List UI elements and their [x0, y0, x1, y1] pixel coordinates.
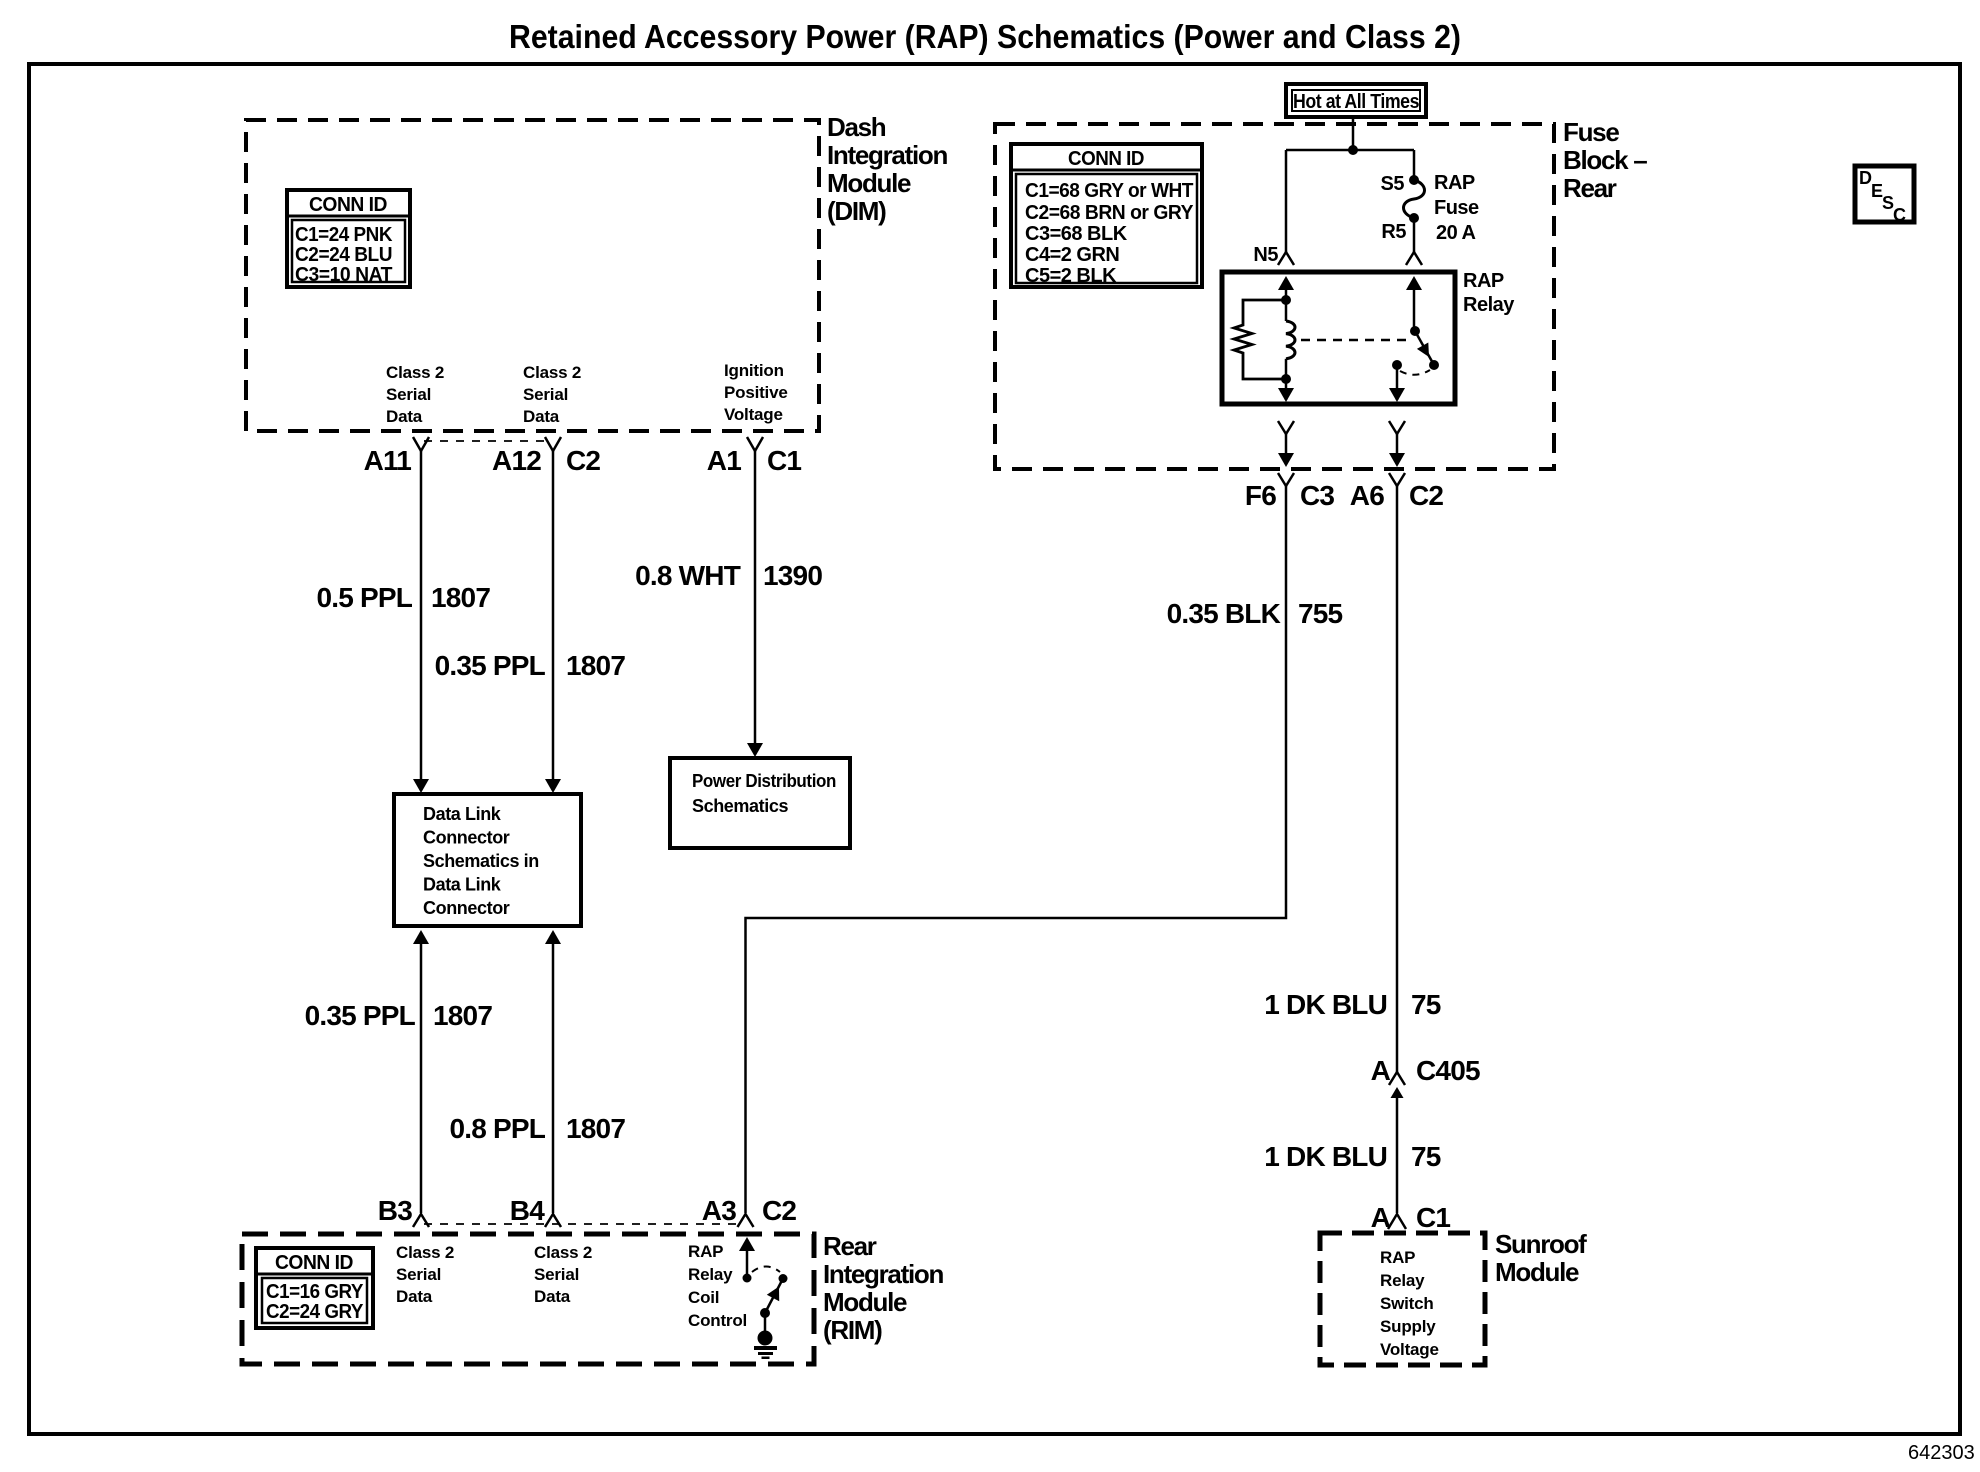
- svg-text:C1=16 GRY: C1=16 GRY: [266, 1281, 364, 1303]
- fork below fuse box A6 C2: [1389, 473, 1405, 486]
- relay actuation dashed link: [1301, 339, 1409, 342]
- relay coil input arrow: [1278, 276, 1294, 290]
- switch output wire arrow down: [1396, 365, 1399, 400]
- resistor branch (parallel): [1234, 300, 1286, 379]
- wire data link box to RIM B3 (arrow up): [413, 930, 429, 944]
- svg-text:Voltage: Voltage: [724, 405, 783, 424]
- svg-text:Rear: Rear: [823, 1231, 877, 1261]
- switch mid dot: [760, 1308, 770, 1318]
- coil bottom junction dot: [1281, 374, 1291, 384]
- svg-text:RAP: RAP: [1380, 1248, 1415, 1267]
- svg-text:Class 2: Class 2: [386, 363, 444, 382]
- svg-text:Serial: Serial: [396, 1265, 441, 1284]
- coil top junction dot: [1281, 295, 1291, 305]
- svg-text:Serial: Serial: [386, 385, 431, 404]
- svg-text:Data Link: Data Link: [423, 875, 502, 895]
- svg-text:B3: B3: [378, 1195, 412, 1226]
- RIM dashed box: [242, 1234, 814, 1364]
- inline connector C405: [1389, 1072, 1405, 1085]
- sunroof dashed box: [1320, 1233, 1485, 1365]
- fork below relay right: [1389, 421, 1405, 434]
- svg-text:A1: A1: [707, 445, 741, 476]
- svg-text:1 DK BLU: 1 DK BLU: [1264, 989, 1387, 1020]
- wire A6 C2 down to sunroof: [1396, 500, 1399, 1073]
- thin dashed link A11-A12: [424, 440, 550, 442]
- wire left branch to N5: [1285, 150, 1288, 253]
- svg-text:Data Link: Data Link: [423, 804, 502, 824]
- relay coil: [1285, 300, 1288, 321]
- wire A12 to data link box: [552, 451, 555, 780]
- fuse S5 terminal dot: [1409, 175, 1419, 185]
- wire to fuse box edge left: [1285, 434, 1288, 455]
- svg-text:C3: C3: [1300, 480, 1334, 511]
- connector fork B4: [545, 1214, 561, 1227]
- svg-text:Connector: Connector: [423, 898, 510, 918]
- svg-text:(RIM): (RIM): [823, 1315, 882, 1345]
- svg-text:Integration: Integration: [823, 1259, 943, 1289]
- wire A1 to power distribution box: [754, 451, 757, 744]
- svg-text:A3: A3: [702, 1195, 736, 1226]
- switch pivot dot: [1410, 326, 1420, 336]
- svg-text:R5: R5: [1381, 221, 1406, 243]
- svg-text:C1: C1: [767, 445, 801, 476]
- svg-text:Schematics: Schematics: [692, 796, 788, 816]
- svg-text:RAP: RAP: [1434, 172, 1475, 194]
- svg-text:A6: A6: [1350, 480, 1384, 511]
- svg-text:Class 2: Class 2: [396, 1243, 454, 1262]
- connector fork A12 C2: [545, 437, 561, 451]
- svg-text:Block –: Block –: [1563, 145, 1647, 175]
- svg-text:C3=68 BLK: C3=68 BLK: [1025, 223, 1128, 245]
- svg-text:1 DK BLU: 1 DK BLU: [1264, 1141, 1387, 1172]
- svg-text:1807: 1807: [431, 582, 490, 613]
- svg-text:C5=2 BLK: C5=2 BLK: [1025, 265, 1117, 287]
- svg-text:Class 2: Class 2: [523, 363, 581, 382]
- svg-text:Ignition: Ignition: [724, 361, 784, 380]
- svg-text:C2: C2: [762, 1195, 796, 1226]
- svg-text:C4=2 GRN: C4=2 GRN: [1025, 244, 1119, 266]
- svg-text:Switch: Switch: [1380, 1294, 1434, 1313]
- svg-text:Data: Data: [396, 1287, 433, 1306]
- fuse RAP 20A squiggle: [1404, 180, 1425, 218]
- svg-text:Retained Accessory Power (RAP): Retained Accessory Power (RAP) Schematic…: [509, 18, 1461, 55]
- wire hot box down: [1352, 117, 1355, 150]
- wire A11 to data link box: [420, 451, 423, 780]
- RIM CONN ID table: [256, 1248, 373, 1328]
- svg-text:0.35 BLK: 0.35 BLK: [1167, 598, 1281, 629]
- Power Distribution Schematics box: [670, 758, 850, 848]
- svg-text:Module: Module: [827, 168, 911, 198]
- svg-text:F6: F6: [1245, 480, 1276, 511]
- svg-text:20 A: 20 A: [1436, 222, 1476, 244]
- svg-text:0.5 PPL: 0.5 PPL: [316, 582, 412, 613]
- svg-text:A: A: [1371, 1202, 1391, 1233]
- svg-text:C1=24 PNK: C1=24 PNK: [295, 224, 393, 246]
- connector fork N5: [1278, 252, 1294, 265]
- svg-text:Relay: Relay: [1380, 1271, 1425, 1290]
- switch left dot: [743, 1274, 752, 1283]
- wire to ground: [764, 1313, 767, 1333]
- relay switch input arrow: [1406, 276, 1422, 290]
- svg-text:0.8 PPL: 0.8 PPL: [449, 1113, 545, 1144]
- junction dot: [1348, 145, 1358, 155]
- svg-text:CONN ID: CONN ID: [309, 194, 387, 216]
- wire fuse to relay: [1413, 218, 1416, 253]
- connector fork fuse-relay: [1406, 252, 1422, 265]
- svg-text:Serial: Serial: [534, 1265, 579, 1284]
- svg-text:C2=24 GRY: C2=24 GRY: [266, 1301, 364, 1323]
- wire horizontal split: [1286, 149, 1414, 152]
- svg-text:C3=10 NAT: C3=10 NAT: [295, 264, 392, 286]
- switch right dot: [779, 1274, 788, 1283]
- svg-text:755: 755: [1298, 598, 1343, 629]
- svg-text:S5: S5: [1381, 173, 1405, 195]
- svg-text:CONN ID: CONN ID: [1068, 148, 1144, 170]
- svg-text:0.35 PPL: 0.35 PPL: [435, 650, 546, 681]
- Data Link Connector box: [394, 794, 581, 926]
- svg-text:C: C: [1893, 205, 1906, 225]
- svg-text:Voltage: Voltage: [1380, 1340, 1439, 1359]
- coil output arrow down: [1285, 379, 1288, 400]
- svg-text:1807: 1807: [566, 1113, 625, 1144]
- svg-text:A: A: [1371, 1055, 1391, 1086]
- svg-text:CONN ID: CONN ID: [275, 1252, 353, 1274]
- svg-text:Schematics in: Schematics in: [423, 851, 539, 871]
- RIM switch: output arrow up: [739, 1237, 755, 1251]
- svg-text:Hot at All Times: Hot at All Times: [1293, 91, 1419, 113]
- svg-text:Fuse: Fuse: [1434, 197, 1479, 219]
- fork below relay left: [1278, 421, 1294, 434]
- svg-text:75: 75: [1411, 989, 1441, 1020]
- svg-text:B4: B4: [510, 1195, 545, 1226]
- svg-text:Class 2: Class 2: [534, 1243, 592, 1262]
- svg-text:1807: 1807: [433, 1000, 492, 1031]
- switch lever with arrow: [765, 1279, 783, 1314]
- svg-text:A11: A11: [364, 445, 412, 476]
- svg-text:C1: C1: [1416, 1202, 1450, 1233]
- svg-text:N5: N5: [1253, 244, 1278, 266]
- svg-text:Positive: Positive: [724, 383, 788, 402]
- svg-text:642303: 642303: [1908, 1442, 1975, 1464]
- svg-text:Control: Control: [688, 1311, 747, 1330]
- svg-text:Dash: Dash: [827, 112, 886, 142]
- thin dashed link B3-B4-A3: [424, 1223, 742, 1225]
- svg-text:0.8 WHT: 0.8 WHT: [635, 560, 741, 591]
- svg-text:Data: Data: [534, 1287, 571, 1306]
- switch output dot: [1392, 360, 1402, 370]
- wire data link box to RIM B4 (arrow up): [545, 930, 561, 944]
- svg-text:Data: Data: [386, 407, 423, 426]
- svg-text:C2: C2: [566, 445, 600, 476]
- wire right branch to fuse: [1413, 150, 1416, 179]
- Hot at All Times box: [1286, 84, 1426, 117]
- svg-text:Rear: Rear: [1563, 173, 1617, 203]
- fuse block CONN ID table: [1011, 144, 1202, 287]
- connector fork A3 C2: [738, 1214, 754, 1227]
- bent wire RIM A3 up, left-to-right to F6 wire: [746, 500, 1287, 1213]
- svg-text:RAP: RAP: [688, 1242, 723, 1261]
- svg-text:Coil: Coil: [688, 1288, 719, 1307]
- fuse R5 terminal dot: [1409, 213, 1419, 223]
- DESC logo box: [1855, 166, 1914, 225]
- DIM dashed box: [246, 120, 819, 431]
- switch travel dashed arc: [752, 1267, 780, 1273]
- connector fork B3: [413, 1214, 429, 1227]
- svg-text:Power Distribution: Power Distribution: [692, 771, 836, 791]
- RAP relay box: [1222, 272, 1455, 404]
- DIM CONN ID table: [287, 190, 410, 287]
- svg-text:75: 75: [1411, 1141, 1441, 1172]
- svg-text:Module: Module: [823, 1287, 907, 1317]
- connector fork A C1: [1388, 1214, 1406, 1229]
- svg-text:Integration: Integration: [827, 140, 947, 170]
- svg-text:C2=24 BLU: C2=24 BLU: [295, 244, 392, 266]
- ground symbol: [758, 1331, 773, 1346]
- svg-text:Relay: Relay: [1463, 294, 1515, 316]
- wire C405 to sunroof: [1396, 1096, 1399, 1213]
- svg-text:Fuse: Fuse: [1563, 117, 1619, 147]
- svg-text:RAP: RAP: [1463, 270, 1504, 292]
- svg-text:Module: Module: [1495, 1257, 1579, 1287]
- switch travel dashed arc: [1400, 370, 1430, 375]
- connector fork A1 C1: [747, 437, 763, 451]
- svg-text:C405: C405: [1416, 1055, 1480, 1086]
- fork below fuse box F6 C3: [1278, 473, 1294, 486]
- switch contact dot: [1429, 360, 1439, 370]
- switch lever with arrow: [1415, 331, 1434, 365]
- svg-text:C2=68 BRN or GRY: C2=68 BRN or GRY: [1025, 202, 1194, 224]
- fuse block dashed box: [995, 124, 1554, 469]
- svg-text:Serial: Serial: [523, 385, 568, 404]
- svg-text:Sunroof: Sunroof: [1495, 1229, 1587, 1259]
- svg-text:1390: 1390: [763, 560, 822, 591]
- svg-text:(DIM): (DIM): [827, 196, 886, 226]
- svg-text:0.35 PPL: 0.35 PPL: [305, 1000, 416, 1031]
- wire to fuse box edge right: [1396, 434, 1399, 455]
- connector fork A11: [413, 437, 429, 451]
- svg-text:Relay: Relay: [688, 1265, 733, 1284]
- svg-text:C2: C2: [1409, 480, 1443, 511]
- svg-text:Supply: Supply: [1380, 1317, 1436, 1336]
- svg-text:Data: Data: [523, 407, 560, 426]
- svg-text:C1=68 GRY or WHT: C1=68 GRY or WHT: [1025, 180, 1193, 202]
- svg-text:Connector: Connector: [423, 828, 510, 848]
- svg-text:1807: 1807: [566, 650, 625, 681]
- svg-text:A12: A12: [492, 445, 541, 476]
